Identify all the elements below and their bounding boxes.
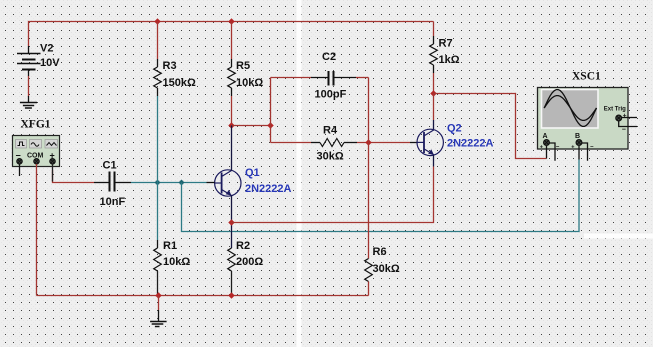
svg-text:−: − (556, 145, 560, 151)
label V2 (40, 43, 53, 55)
label R5 (236, 60, 250, 72)
value 2N2222A (Q1) (245, 183, 292, 195)
label XFG1 (21, 119, 51, 131)
svg-text:R2: R2 (236, 240, 250, 252)
label Q2 (447, 123, 462, 135)
node rail-R5 (228, 18, 235, 25)
battery V2 (17, 46, 41, 76)
value 10kΩ (R1) (163, 256, 190, 268)
wire rail to main ground (158, 296, 160, 311)
value 1kΩ (439, 54, 460, 66)
value 100pF (315, 89, 347, 101)
label R7 (439, 38, 453, 50)
svg-text:Q1: Q1 (245, 167, 260, 179)
wire C2 left lead (271, 77, 329, 79)
node rail-R2 (228, 292, 235, 299)
transistor Q2 (417, 129, 443, 155)
label R2 (236, 240, 250, 252)
page boundary vertical white strip (297, 0, 302, 347)
resistor R4 (320, 139, 357, 147)
node R7-Q2 collector-scope tap (430, 90, 437, 97)
label XSC1 (572, 71, 601, 83)
svg-text:B: B (575, 133, 580, 140)
node rail-R1-ground (155, 292, 162, 299)
wire top rail V2 to R7 (29, 22, 434, 47)
wire battery to ground (28, 76, 30, 96)
svg-text:200Ω: 200Ω (236, 256, 263, 268)
label C2 (322, 51, 336, 63)
oscilloscope XSC1 (538, 88, 629, 151)
pin Q1 base stub (207, 182, 215, 184)
pin XFG1 minus stub (19, 164, 21, 176)
page boundary horizontal white strip (584, 234, 653, 239)
label R3 (163, 60, 177, 72)
svg-text:−: − (622, 127, 626, 134)
resistor R2 (228, 248, 236, 296)
svg-text:Ext Trig: Ext Trig (604, 106, 626, 112)
wire XFG1 COM to bottom rail (36, 164, 38, 296)
label R6 (373, 246, 387, 258)
function generator XFG1 (13, 136, 60, 167)
ground main (150, 310, 167, 327)
wire tap to feedback loop left (232, 125, 271, 127)
wire C1 to Q1 base (teal) (131, 182, 207, 184)
pin scope A plus (546, 146, 548, 159)
value 2N2222A (Q2) (447, 138, 494, 150)
svg-text:A: A (543, 133, 548, 140)
value 200Ω (236, 256, 263, 268)
resistor R7 (430, 22, 438, 94)
label R1 (163, 240, 177, 252)
pin ext trig plus (622, 117, 638, 119)
pin scope A minus hook (549, 143, 555, 161)
node base-R3R1 column (155, 180, 161, 186)
node loop right at base row (365, 139, 372, 146)
node base-scopeB branch (179, 180, 185, 186)
svg-text:R6: R6 (373, 246, 387, 258)
wire Q1 collector (231, 126, 233, 171)
capacitor C1 (94, 172, 131, 192)
svg-text:C1: C1 (103, 160, 117, 172)
resistor R6 (365, 259, 373, 296)
resistor R3 (154, 22, 162, 97)
svg-text:30kΩ: 30kΩ (317, 151, 344, 163)
wire C2 right lead red (356, 77, 369, 79)
svg-text:R7: R7 (439, 38, 453, 50)
svg-text:1kΩ: 1kΩ (439, 54, 460, 66)
svg-text:10V: 10V (40, 57, 60, 69)
svg-text:+: + (540, 145, 543, 151)
node loop left (267, 122, 274, 129)
svg-text:10kΩ: 10kΩ (163, 256, 190, 268)
ground below V2 (20, 96, 37, 108)
wire base node to scope channel B (teal) (182, 160, 580, 232)
resistor R5 (228, 22, 236, 126)
svg-text:2N2222A: 2N2222A (447, 138, 494, 150)
svg-text:−: − (590, 145, 594, 151)
svg-text:2N2222A: 2N2222A (245, 183, 292, 195)
pin Q2 emitter stub (433, 155, 435, 167)
wire R4 right to Q2 base (357, 142, 417, 144)
wire R4 left lead (271, 142, 321, 144)
svg-text:+: + (571, 145, 574, 151)
svg-text:R5: R5 (236, 60, 250, 72)
label R4 (323, 125, 338, 137)
svg-text:100pF: 100pF (315, 89, 347, 101)
wire Q2 emitter to emitter row (232, 167, 434, 223)
label C1 (103, 160, 117, 172)
value 150kΩ (163, 77, 196, 89)
wire Q2 collector (433, 94, 435, 130)
value 10V (40, 57, 60, 69)
capacitor C2 (329, 71, 357, 86)
svg-text:C2: C2 (322, 51, 336, 63)
svg-text:Q2: Q2 (447, 123, 462, 135)
wire feedback loop right vertical down to R6 (368, 78, 370, 259)
svg-text:R1: R1 (163, 240, 177, 252)
wire feedback loop left vertical (270, 78, 272, 143)
svg-text:+: + (623, 113, 627, 120)
wire Q1 emitter to R2 top (231, 196, 233, 249)
wire R3 bottom to base node to R1 top (teal) (157, 96, 159, 240)
wire output to scope channel A (434, 94, 547, 159)
pin scope B minus hook (582, 143, 588, 161)
pin scope B plus (578, 146, 580, 160)
wire bottom rail (37, 295, 369, 297)
svg-text:XFG1: XFG1 (21, 119, 51, 131)
svg-text:150kΩ: 150kΩ (163, 77, 196, 89)
pin ext trig minus hook (619, 121, 637, 127)
svg-text:10kΩ: 10kΩ (236, 77, 263, 89)
svg-text:XSC1: XSC1 (572, 71, 601, 83)
label Q1 (245, 167, 260, 179)
value 10kΩ (236, 77, 263, 89)
transistor Q1 (215, 170, 241, 196)
wire XFG1 plus to C1 (53, 164, 95, 183)
svg-text:10nF: 10nF (100, 196, 126, 208)
svg-text:30kΩ: 30kΩ (373, 263, 400, 275)
resistor R1 (154, 240, 162, 296)
value 10nF (100, 196, 126, 208)
node emitter row junction (228, 219, 235, 226)
svg-text:R4: R4 (323, 125, 338, 137)
value 30kΩ (R6) (373, 263, 400, 275)
svg-text:R3: R3 (163, 60, 177, 72)
node R5-Q1 collector feedback tap (228, 122, 235, 129)
value 30kΩ (317, 151, 344, 163)
svg-text:V2: V2 (40, 43, 53, 55)
node rail-R3 (154, 18, 161, 25)
